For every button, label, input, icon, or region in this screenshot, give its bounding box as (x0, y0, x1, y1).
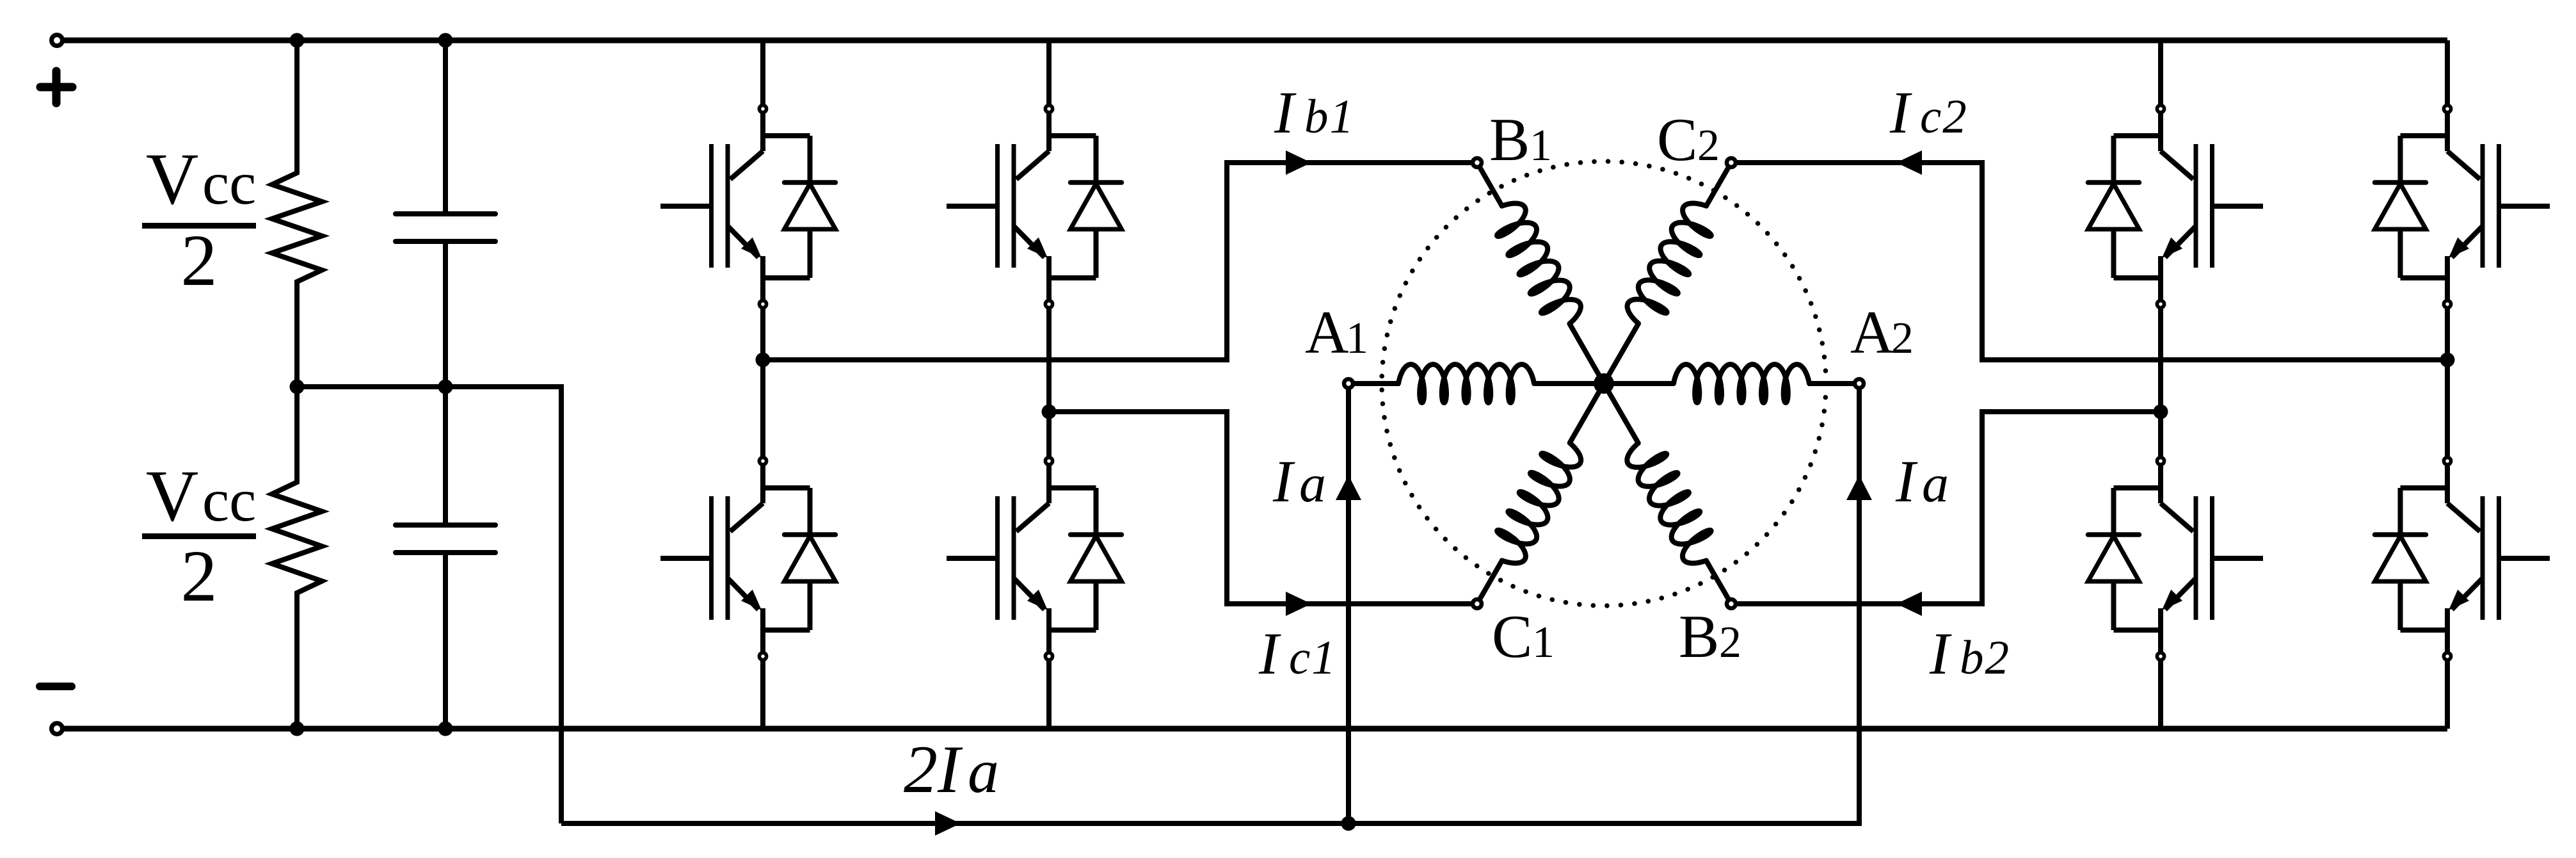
motor stator boundary (dotted circle) (1382, 161, 1826, 606)
wire: DC midpoint link to 2Ia return (297, 387, 561, 823)
IGBT Q3H (inverter-2 leg 3 upper) (2114, 105, 2264, 307)
label Ic2 (1889, 80, 1968, 146)
wire: inverter-2 leg 3 vertical (2158, 40, 2163, 729)
svg-text:I: I (1929, 621, 1952, 687)
current arrow Ia (left, into A1) (1336, 475, 1361, 500)
wire: inverter-1 leg 1 vertical (760, 40, 765, 729)
wire: leg1 output to B1 (Ib1 path) (763, 163, 1477, 360)
svg-text:1: 1 (1532, 618, 1555, 667)
svg-text:c2: c2 (1920, 90, 1968, 143)
current arrow Ib2 (1896, 592, 1922, 616)
svg-text:2: 2 (181, 535, 218, 617)
svg-text:I: I (1274, 80, 1297, 146)
svg-text:a: a (1299, 454, 1326, 514)
junction on top rail at resistor branch (290, 33, 305, 48)
svg-text:a: a (1922, 454, 1949, 514)
junction at resistor midpoint (290, 380, 305, 394)
winding B2-phase (lower-right coil) (1604, 384, 1731, 604)
svg-text:I: I (1258, 621, 1281, 687)
resistor R1 (upper Vcc/2 divider) (272, 40, 322, 387)
current arrow Ic1 (1286, 592, 1311, 616)
label C1 (1492, 603, 1555, 670)
current arrow Ib1 (1286, 150, 1311, 175)
negative DC input terminal (52, 724, 63, 734)
IGBT Q1L (inverter-1 leg 1 lower) (660, 457, 810, 660)
svg-text:b1: b1 (1304, 90, 1355, 143)
svg-text:1: 1 (1346, 314, 1368, 363)
label A1 (1305, 298, 1368, 366)
diode D2L (freewheel, Q2L) (1071, 488, 1122, 630)
wire: leg4 output to C2 (Ic2 path) (1731, 163, 2447, 360)
svg-text:2: 2 (1719, 618, 1741, 667)
svg-text:I: I (1895, 449, 1918, 515)
diode D3L (freewheel, Q3L) (2088, 488, 2140, 630)
IGBT Q4H (inverter-2 leg 4 upper) (2401, 105, 2550, 307)
winding A2-phase (right horizontal coil) (1604, 364, 1859, 403)
resistor R2 (lower Vcc/2 divider) (272, 387, 322, 729)
svg-text:2: 2 (1697, 121, 1720, 170)
svg-text:A: A (1305, 298, 1349, 366)
IGBT Q1H (inverter-1 leg 1 upper) (660, 105, 810, 307)
current arrow Ia (right, into A2) (1846, 475, 1872, 500)
IGBT Q3L (inverter-2 leg 3 lower) (2114, 457, 2264, 660)
node A1 terminal (1344, 379, 1353, 388)
svg-text:cc: cc (202, 466, 256, 534)
junction: inverter-2 leg 3 output node (2154, 405, 2168, 419)
wire: 2Ia return (DC midpoint to A1/A2) (561, 384, 1859, 823)
wire: leg3 output to B2 (Ib2 path) (1731, 412, 2161, 604)
node C2 terminal (1727, 158, 1736, 167)
diode D1L (freewheel, Q1L) (785, 488, 836, 630)
label 2Ia (904, 732, 999, 807)
winding B1-phase (upper-left coil) (1477, 163, 1604, 384)
positive DC input terminal (52, 35, 63, 46)
svg-text:I: I (1889, 80, 1912, 146)
label B1 (1489, 106, 1552, 174)
svg-text:a: a (968, 737, 999, 806)
svg-text:A: A (1850, 298, 1894, 366)
svg-text:V: V (146, 455, 198, 537)
label Ib1 (1274, 80, 1355, 146)
svg-text:cc: cc (202, 149, 256, 217)
wire: inverter-1 leg 2 vertical (1046, 40, 1052, 729)
label Vcc/2 (upper) (142, 138, 256, 301)
svg-text:C: C (1657, 106, 1697, 174)
svg-text:I: I (1272, 449, 1295, 515)
svg-text:B: B (1489, 106, 1530, 174)
label Vcc/2 (lower) (142, 455, 256, 617)
IGBT Q2L (inverter-1 leg 2 lower) (947, 457, 1096, 660)
wire: +Vcc top DC rail (57, 38, 2447, 44)
label C2 (1657, 106, 1720, 174)
wire: leg2 output to C1 (Ic1 path) (1049, 412, 1477, 604)
current arrow Ic2 (1896, 150, 1922, 175)
junction on bottom rail at capacitor branch (438, 722, 453, 736)
junction: inverter-1 leg 1 output node (756, 353, 771, 368)
label Ic1 (1258, 621, 1337, 687)
IGBT Q2H (inverter-1 leg 2 upper) (947, 105, 1096, 307)
junction: inverter-1 leg 2 output node (1042, 405, 1057, 419)
svg-text:V: V (146, 138, 198, 220)
label A2 (1850, 298, 1914, 366)
wire: inverter-2 leg 4 vertical (2445, 40, 2450, 729)
node C1 terminal (1473, 599, 1482, 608)
svg-text:B: B (1679, 603, 1719, 670)
winding A1-phase (left horizontal coil) (1348, 364, 1604, 403)
diode D2H (freewheel, Q2H) (1071, 136, 1122, 278)
svg-text:c1: c1 (1289, 631, 1337, 684)
current arrow 2Ia (935, 811, 961, 836)
node B2 terminal (1727, 599, 1736, 608)
svg-text:2: 2 (1891, 314, 1914, 363)
label Ia (left) (1272, 449, 1326, 515)
label B2 (1679, 603, 1741, 670)
wire: -Vcc bottom DC rail (57, 726, 2447, 732)
label + (positive supply) (40, 71, 72, 103)
junction on bottom rail at resistor branch (290, 722, 305, 736)
IGBT Q4L (inverter-2 leg 4 lower) (2401, 457, 2550, 660)
label Ib2 (1929, 621, 2010, 687)
svg-text:1: 1 (1530, 121, 1552, 170)
svg-text:2: 2 (181, 220, 218, 301)
diode D4L (freewheel, Q4L) (2375, 488, 2426, 630)
winding C1-phase (lower-left coil) (1477, 384, 1604, 604)
capacitor Cd1 (upper DC-link) (396, 40, 495, 387)
node A2 terminal (1855, 379, 1864, 388)
svg-text:b2: b2 (1960, 631, 2010, 684)
junction on top rail at capacitor branch (438, 33, 453, 48)
diode D4H (freewheel, Q4H) (2375, 136, 2426, 278)
node B1 terminal (1473, 158, 1482, 167)
svg-text:C: C (1492, 603, 1532, 670)
winding C2-phase (upper-right coil) (1604, 163, 1731, 384)
svg-text:2I: 2I (904, 732, 963, 807)
diode D3H (freewheel, Q3H) (2088, 136, 2140, 278)
capacitor Cd2 (lower DC-link) (396, 387, 495, 729)
motor star point (centre node) (1594, 373, 1614, 394)
diode D1H (freewheel, Q1H) (785, 136, 836, 278)
junction: inverter-2 leg 4 output node (2440, 353, 2455, 368)
junction at capacitor midpoint (438, 380, 453, 394)
junction: A1 branch on 2Ia return (1341, 816, 1356, 831)
label - (negative supply) (40, 683, 72, 690)
label Ia (right) (1895, 449, 1949, 515)
